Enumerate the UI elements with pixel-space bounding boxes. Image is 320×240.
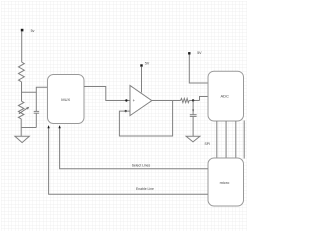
wire enable line (49, 128, 208, 195)
node 5V terminal top-left (21, 29, 24, 32)
arrowhead enable into MUX (47, 125, 49, 128)
wire R1 to junction (21, 82, 23, 101)
wire bus line 1 (216, 121, 218, 158)
svg-text:MUX: MUX (61, 97, 70, 102)
wire select lines (60, 128, 208, 169)
ground 1 (15, 136, 29, 142)
svg-text:Select Lines: Select Lines (132, 163, 151, 167)
wire R2 bottom (20, 119, 22, 137)
capacitor C2 (190, 114, 197, 116)
wire 5V to op-amp top (141, 67, 143, 93)
MUX block (48, 75, 85, 124)
wire bus line 2 (225, 121, 227, 158)
node op-amp inverting input (125, 110, 127, 112)
wire op-amp output (152, 100, 181, 102)
wire feedback loop (119, 101, 172, 137)
capacitor C1 (34, 110, 39, 112)
svg-text:Enable Line: Enable Line (136, 187, 154, 191)
resistor R1 (19, 62, 25, 82)
svg-text:5V: 5V (145, 62, 150, 66)
node 5V terminal ADC (188, 52, 190, 54)
arrowhead down on C2 branch (192, 110, 194, 112)
wire 5V into ADC (189, 55, 208, 84)
resistor R2 potentiometer (18, 101, 24, 119)
ADC block (208, 71, 244, 121)
node op-amp non-inverting input (125, 99, 127, 101)
wire bus line 3 (235, 121, 237, 158)
svg-text:ADC: ADC (220, 94, 229, 99)
wire bottom return (21, 127, 36, 129)
ground 2 (186, 136, 200, 142)
wire junction to MUX input (22, 87, 48, 92)
svg-text:SPI: SPI (205, 142, 211, 146)
svg-text:micro: micro (220, 180, 231, 185)
wire C2 branch (192, 101, 194, 115)
node junction R3 C2 (192, 99, 194, 101)
wire 5V rail down to R1 (21, 31, 23, 62)
wire capacitor branch top (35, 92, 37, 111)
op-amp U1 (130, 86, 152, 116)
wire C2 to ground (192, 116, 194, 136)
svg-text:5V: 5V (197, 51, 202, 55)
wire R3 to jog (189, 100, 199, 102)
node 5V terminal op-amp (140, 64, 142, 66)
wire jog into ADC (200, 97, 209, 101)
grid area (1, 1, 247, 231)
wire MUX output to op-amp (84, 87, 130, 101)
resistor R3 (181, 98, 190, 102)
potentiometer wiper arrow (19, 108, 28, 114)
micro block (208, 158, 244, 206)
wire capacitor branch bottom (35, 113, 37, 127)
wire bus line 4 (243, 121, 245, 159)
arrowhead select into MUX (58, 125, 60, 128)
svg-text:5v: 5v (31, 29, 35, 33)
